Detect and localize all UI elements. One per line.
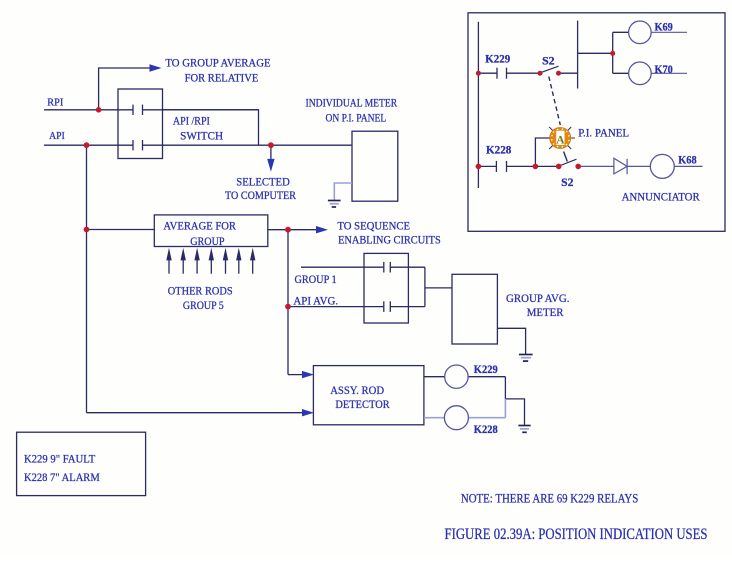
svg-text:S2: S2 [561, 175, 573, 189]
svg-text:AVERAGE FOR: AVERAGE FOR [163, 218, 236, 232]
svg-text:SWITCH: SWITCH [180, 129, 223, 143]
svg-text:GROUP AVG.: GROUP AVG. [506, 291, 570, 305]
svg-text:K229: K229 [485, 51, 510, 65]
svg-text:S2: S2 [542, 54, 555, 68]
svg-text:K228 7" ALARM: K228 7" ALARM [24, 470, 100, 484]
svg-text:K229: K229 [474, 362, 498, 376]
svg-text:INDIVIDUAL METER: INDIVIDUAL METER [306, 96, 398, 110]
svg-text:FOR RELATIVE: FOR RELATIVE [185, 71, 259, 85]
svg-text:TO SEQUENCE: TO SEQUENCE [337, 218, 410, 232]
svg-text:K229 9" FAULT: K229 9" FAULT [24, 452, 96, 466]
svg-text:API /RPI: API /RPI [173, 114, 210, 128]
svg-text:TO COMPUTER: TO COMPUTER [225, 188, 296, 202]
svg-text:OTHER RODS: OTHER RODS [168, 284, 233, 298]
svg-text:SELECTED: SELECTED [236, 174, 290, 188]
svg-text:ENABLING CIRCUITS: ENABLING CIRCUITS [338, 233, 441, 247]
svg-text:ASSY. ROD: ASSY. ROD [330, 383, 384, 397]
svg-text:GROUP 5: GROUP 5 [183, 298, 224, 312]
svg-text:DETECTOR: DETECTOR [335, 397, 389, 411]
svg-text:FIGURE 02.39A: POSITION INDIC: FIGURE 02.39A: POSITION INDICATION USES [445, 526, 708, 543]
svg-text:GROUP 1: GROUP 1 [295, 272, 337, 286]
svg-text:K228: K228 [486, 143, 511, 157]
svg-text:TO GROUP AVERAGE: TO GROUP AVERAGE [165, 55, 270, 69]
svg-text:A: A [556, 134, 565, 146]
svg-text:API: API [49, 130, 65, 142]
svg-text:P.I. PANEL: P.I. PANEL [578, 125, 629, 139]
svg-text:RPI: RPI [47, 96, 63, 108]
svg-text:ON P.I. PANEL: ON P.I. PANEL [326, 110, 387, 124]
svg-text:API AVG.: API AVG. [293, 293, 338, 307]
svg-text:NOTE: THERE ARE 69 K229 RELAY: NOTE: THERE ARE 69 K229 RELAYS [461, 491, 638, 506]
svg-text:METER: METER [527, 305, 564, 319]
svg-text:GROUP: GROUP [190, 234, 225, 248]
svg-text:ANNUNCIATOR: ANNUNCIATOR [622, 190, 700, 204]
svg-text:K70: K70 [655, 62, 673, 76]
svg-text:K68: K68 [678, 152, 696, 166]
svg-text:K228: K228 [474, 422, 498, 436]
svg-text:K69: K69 [655, 20, 673, 34]
